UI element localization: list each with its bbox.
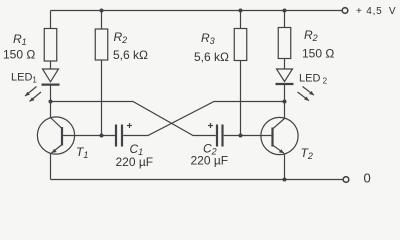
label C2 [203,142,217,157]
wire R4 top lead [284,11,286,28]
transistor T2 [261,117,298,154]
resistor R1 [44,29,57,62]
LED LED2 [276,69,315,101]
node top rail junction R3 [239,9,243,13]
label C1 value 220 uF [116,155,154,169]
label R2 value 5.6 kohm [113,48,148,62]
wire cross coupling T1 collector to C2 [51,102,216,136]
wire T2 emitter lead [284,154,286,180]
wire top supply rail [51,10,343,12]
wire collector lead T1 [50,102,52,119]
wire R1 top lead [50,11,52,29]
label C2 value 220 uF [191,154,229,168]
terminal +4.5V [342,8,348,14]
label T1 [76,145,88,160]
node R3 base junction [239,134,243,138]
terminal 0V [343,177,349,183]
wire R4 to LED2 [284,59,286,70]
label R3 [201,31,215,46]
wire cross coupling C1 to T2 collector [123,102,284,136]
capacitor C1 [116,123,132,147]
label R1 value 150 ohm [3,48,35,62]
resistor R3 [234,29,247,61]
label R1 [13,32,27,47]
LED LED1 [25,69,60,102]
resistor R2 [95,29,108,60]
node T1 collector junction [49,100,53,104]
node T2 collector junction [283,100,287,104]
wire R2 bottom lead [101,60,103,136]
label LED1 [11,72,37,85]
svg-text:5,6 kΩ: 5,6 kΩ [113,48,148,62]
wire R1 to LED1 [50,61,52,69]
svg-text:150 Ω: 150 Ω [302,47,334,61]
label R4 value 150 ohm [302,47,334,61]
resistor R4 [278,28,291,59]
wire R3 bottom lead [240,61,242,136]
label R3 value 5.6 kohm [194,50,229,64]
transistor T1 [37,117,74,154]
svg-text:5,6 kΩ: 5,6 kΩ [194,50,229,64]
label R4 [304,28,318,43]
label LED2 [299,73,328,86]
wire T1 emitter lead [50,153,52,180]
wire collector lead T2 [284,102,286,119]
svg-text:0: 0 [364,171,371,186]
label T2 [301,146,313,161]
node top rail junction R4 [283,9,287,13]
node R2 base junction [100,134,104,138]
wire T2 base line [224,135,272,137]
label 0V [364,171,371,186]
label R2 [114,30,128,45]
svg-text:220 µF: 220 µF [116,155,154,169]
wire LED1 to collector node [50,85,52,102]
svg-text:220 µF: 220 µF [191,154,229,168]
label supply +4.5V [356,6,396,17]
capacitor C2 [208,123,223,147]
label C1 [130,142,144,157]
wire T1 base line [63,135,115,137]
wire LED2 to collector node [284,84,286,102]
wire bottom 0V rail [51,179,344,181]
wire R2 top lead [101,11,103,30]
node emitter rail junction [283,178,287,182]
svg-text:150 Ω: 150 Ω [3,48,35,62]
svg-text:+ 4,5 V: + 4,5 V [356,6,396,17]
wire R3 top lead [240,11,242,29]
node top rail junction R2 [100,9,104,13]
